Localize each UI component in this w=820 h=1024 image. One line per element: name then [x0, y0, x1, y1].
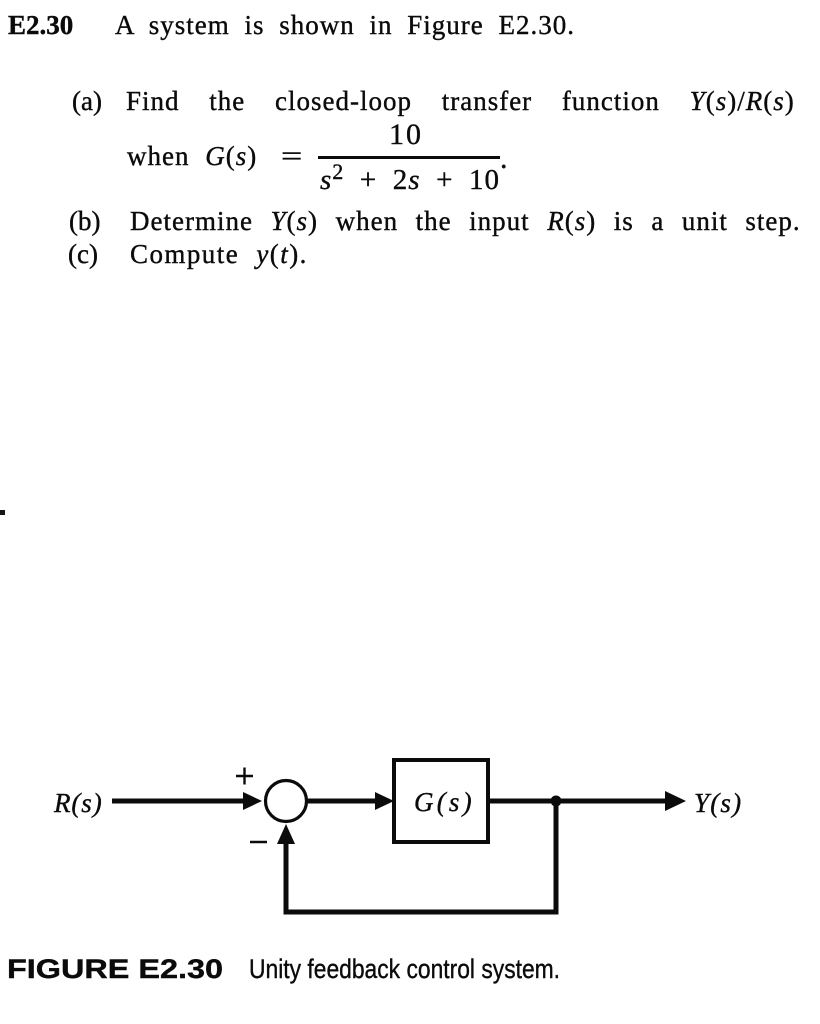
- node junction dot: [551, 796, 562, 807]
- node Y(s) output label: [694, 788, 742, 818]
- summing junction U1: [266, 781, 307, 822]
- fraction 10 / s^2+2s+10: [318, 121, 494, 148]
- svg-text:Y(s): Y(s): [694, 788, 742, 818]
- plus sign label: [236, 768, 253, 785]
- node R(s) input label: [53, 788, 103, 818]
- wire input R(s) to summer: [112, 799, 248, 804]
- arrowhead into block G(s): [375, 792, 394, 810]
- arrowhead to Y(s): [665, 791, 686, 811]
- wire feedback path: [286, 803, 556, 912]
- arrowhead into summing junction: [243, 792, 262, 810]
- arrowhead feedback into summer: [277, 824, 295, 844]
- figure caption: [7, 956, 223, 983]
- block G1 G(s): [394, 760, 488, 842]
- svg-text:G(s): G(s): [414, 787, 475, 817]
- block diagram: [0, 720, 820, 960]
- minus sign label: [250, 841, 267, 844]
- wire summer to block G(s): [307, 799, 380, 804]
- stray mark on left margin: [0, 510, 5, 515]
- problem statement text: [8, 12, 73, 39]
- wire block G(s) to output: [488, 799, 668, 804]
- svg-text:R(s): R(s): [53, 788, 103, 818]
